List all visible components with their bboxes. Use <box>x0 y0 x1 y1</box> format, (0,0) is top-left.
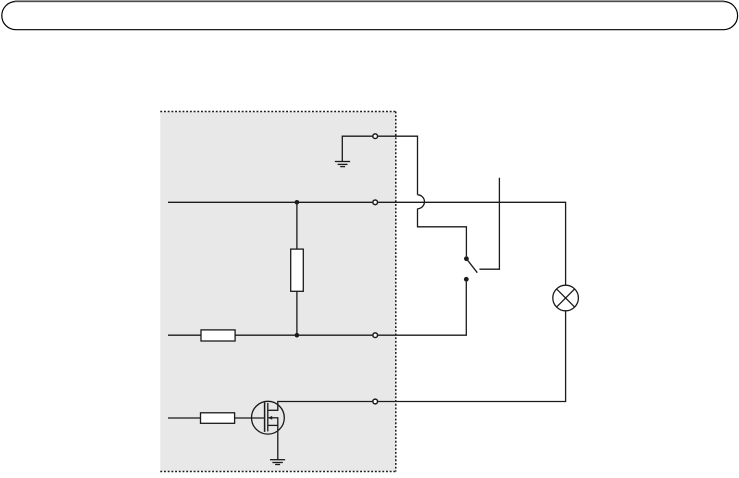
wire: Q1 drain to pin 4 <box>278 401 373 403</box>
resistor R2 (horizontal, pin 3 line) <box>201 330 235 341</box>
wire: branch from node A down to resistor R1 <box>296 202 298 249</box>
wire: pin 3 line left segment <box>168 334 201 336</box>
wire: switch to pin 3 external <box>378 282 466 336</box>
wire: pin 2 external to lamp <box>378 202 565 285</box>
terminal pin 3 <box>373 333 378 338</box>
switch S1 <box>464 178 500 282</box>
node A (junction dot on pin 2 line) <box>295 200 300 205</box>
device enclosure (grey dashed box) <box>160 112 395 472</box>
wire: pin 1 external, down to switch (with crossover hop) <box>378 136 466 256</box>
ground (internal, pin 1) <box>335 162 350 167</box>
wire: pin 2 line inside enclosure <box>168 201 372 203</box>
lamp LP1 <box>553 285 579 311</box>
wire: resistor R1 to node B <box>296 291 298 335</box>
wire: resistor R3 to gate <box>235 417 264 419</box>
wire: lamp to pin 4 external <box>378 311 565 402</box>
transistor Q1 (MOSFET) <box>252 401 285 434</box>
wire: gate line left segment <box>168 417 201 419</box>
rounded step frame <box>2 2 738 30</box>
resistor R3 (horizontal, gate line) <box>201 413 235 424</box>
wire: terminal 1 to internal ground <box>342 136 372 161</box>
terminal pin 1 <box>373 134 378 139</box>
node B (junction dot on pin 3 line) <box>295 333 300 338</box>
wire: Q1 source down to ground <box>277 418 279 460</box>
terminal pin 2 <box>373 200 378 205</box>
wire: pin 3 line right segment <box>235 334 372 336</box>
terminal pin 4 <box>373 399 378 404</box>
resistor R1 (vertical) <box>291 249 304 291</box>
ground (below Q1) <box>270 460 285 465</box>
